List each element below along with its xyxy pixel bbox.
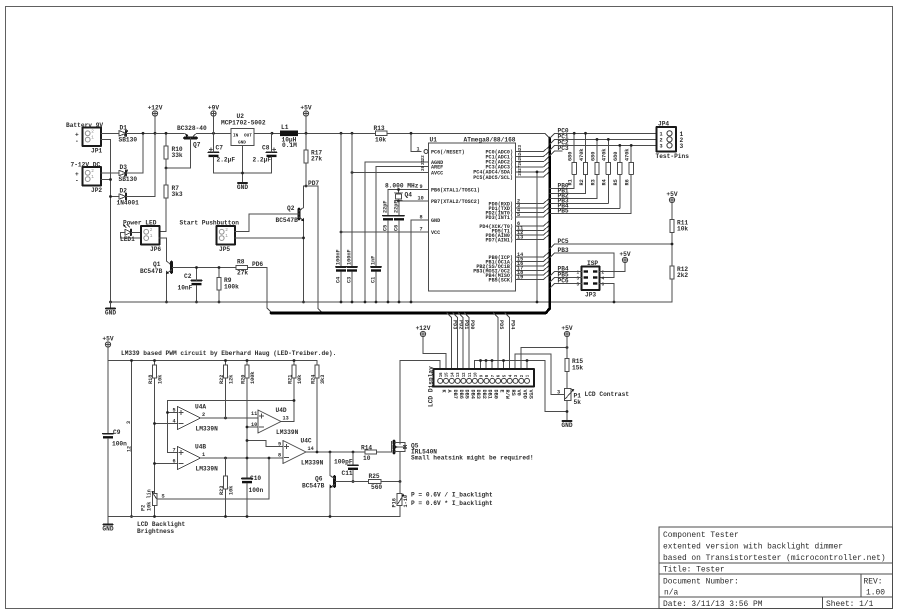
junction R5 top xyxy=(618,144,621,147)
wire ISP pin2 to +5V xyxy=(600,263,626,272)
op-amp U4B xyxy=(178,444,219,473)
wire PD7 to bus xyxy=(306,186,323,313)
svg-text:PD1: PD1 xyxy=(463,320,469,329)
pin numbers U4C xyxy=(278,442,314,459)
junction Q7 base / R7 xyxy=(165,167,168,170)
svg-text:JP4: JP4 xyxy=(658,121,669,128)
capacitor C6 22pF xyxy=(394,201,405,302)
inductor L1 xyxy=(280,124,298,149)
svg-text:5k: 5k xyxy=(574,399,582,406)
svg-text:100pF: 100pF xyxy=(334,459,353,466)
connector JP2 7-12V DC xyxy=(71,162,103,195)
svg-text:+5V: +5V xyxy=(619,251,630,258)
label heatsink note xyxy=(411,455,534,462)
label Power LED xyxy=(123,220,157,227)
junction U2 out / C8 xyxy=(271,132,274,135)
svg-text:LM339N: LM339N xyxy=(301,460,324,467)
svg-text:2: 2 xyxy=(91,129,94,134)
wire MCU pin 11 (PD5(T1)) to bus xyxy=(516,225,549,231)
svg-text:680: 680 xyxy=(613,152,619,161)
svg-text:13: 13 xyxy=(283,416,289,422)
junction D1/D3 xyxy=(142,132,145,135)
wire feedback top xyxy=(168,401,295,413)
wire D3 up to +12V node xyxy=(126,133,143,173)
wire LED1 loop to JP6 pin1 xyxy=(121,232,142,238)
svg-text:C2: C2 xyxy=(184,273,192,280)
junction U4A minus xyxy=(153,422,156,425)
svg-text:VDD: VDD xyxy=(521,390,527,399)
svg-text:DB7: DB7 xyxy=(452,390,458,399)
junction rail C4 xyxy=(340,132,343,135)
junction AGND gnd xyxy=(364,301,367,304)
pin numbers U4B xyxy=(173,448,206,465)
wire U4A minus input xyxy=(155,423,178,425)
wire PWM top rail xyxy=(108,360,317,362)
wire MCU pin 3 (PD1(TXD)) to bus xyxy=(516,203,549,209)
svg-text:PB5: PB5 xyxy=(558,207,569,214)
svg-text:R8: R8 xyxy=(237,259,245,266)
svg-text:16: 16 xyxy=(440,372,444,377)
svg-text:1: 1 xyxy=(417,147,420,153)
svg-text:LM339N: LM339N xyxy=(196,426,219,433)
svg-text:PD7(AIN1): PD7(AIN1) xyxy=(485,237,513,243)
svg-text:20: 20 xyxy=(421,165,426,171)
junction VDD tap xyxy=(566,346,569,349)
wire LED1 to JP6 xyxy=(131,231,141,233)
wire U4D minus / integrator xyxy=(247,378,258,478)
power +5V (contrast) xyxy=(561,325,572,359)
svg-text:C4: C4 xyxy=(336,277,342,283)
wire JP2 pin1 tap xyxy=(101,179,111,181)
svg-text:GND: GND xyxy=(237,184,248,191)
svg-text:2: 2 xyxy=(225,228,228,233)
junction rail C10 xyxy=(246,515,249,518)
junction LM339 gnd xyxy=(130,515,133,518)
op-amp U4D xyxy=(258,407,299,436)
svg-text:C3: C3 xyxy=(347,277,353,283)
wire net PD2 to LCD xyxy=(453,313,463,369)
svg-text:SB130: SB130 xyxy=(119,176,138,183)
svg-text:27k: 27k xyxy=(237,270,248,277)
svg-text:IN: IN xyxy=(233,134,239,139)
svg-text:GND: GND xyxy=(102,526,113,533)
resistor R24 xyxy=(310,361,326,385)
junction rail R23 xyxy=(224,515,227,518)
junction R21 / feedback xyxy=(293,399,296,402)
junction rail C3 xyxy=(351,132,354,135)
svg-text:12k: 12k xyxy=(228,375,234,384)
svg-text:2: 2 xyxy=(91,169,94,174)
svg-text:28: 28 xyxy=(518,170,523,176)
svg-text:1nF: 1nF xyxy=(371,256,377,265)
wire MCU pin 23 (PC0(ADC0)) to bus xyxy=(516,145,549,152)
svg-text:R25: R25 xyxy=(369,473,380,480)
junction crystal top xyxy=(397,188,400,191)
resistor R3 xyxy=(550,139,599,198)
svg-text:10: 10 xyxy=(363,455,371,462)
svg-text:JP6: JP6 xyxy=(150,246,161,253)
resistor R11 xyxy=(670,220,689,267)
junction VCC / C4 xyxy=(340,231,343,234)
svg-text:22pF: 22pF xyxy=(383,201,389,213)
wire MCU pin 18 (PB4(MISO)) to bus xyxy=(516,270,549,276)
svg-text:1: 1 xyxy=(202,452,205,458)
wire AREF xyxy=(376,167,429,267)
wire R21 bottom xyxy=(293,378,295,422)
wire MCU pin 2 (PD0(RXD)) to bus xyxy=(516,198,549,204)
junction wiper column xyxy=(268,457,271,460)
junction GND rail left xyxy=(109,301,112,304)
power +12V (LCD) xyxy=(416,325,431,337)
connector JP5 Start Pushbutton xyxy=(180,220,240,253)
svg-text:Component Tester: Component Tester xyxy=(663,531,739,540)
svg-text:100nF: 100nF xyxy=(336,249,342,265)
svg-text:100k: 100k xyxy=(250,372,256,384)
svg-text:LCD Contrast: LCD Contrast xyxy=(585,391,630,398)
junction U2 gnd xyxy=(241,172,244,175)
svg-text:33k: 33k xyxy=(172,152,183,159)
connector JP4 Test-Pins xyxy=(656,121,690,161)
junction R9 top xyxy=(218,266,221,269)
svg-text:GND: GND xyxy=(105,310,116,317)
wire MCU pin 16 (PB2(SS/OC1B)) to bus xyxy=(516,261,549,267)
junction C10 column xyxy=(246,457,249,460)
svg-text:R4: R4 xyxy=(602,179,608,185)
svg-text:R14: R14 xyxy=(361,445,372,452)
svg-text:7-12V DC: 7-12V DC xyxy=(71,162,101,169)
pin numbers U4A xyxy=(173,408,206,425)
svg-text:14: 14 xyxy=(308,446,314,452)
wire R14 to Q5 gate xyxy=(377,451,392,453)
resistor R9 xyxy=(217,268,239,303)
label LCD Backlight Brightness xyxy=(137,521,186,535)
bus main xyxy=(271,138,550,313)
svg-text:U4C: U4C xyxy=(301,438,312,445)
junction P1 gnd xyxy=(566,410,569,413)
wire reset drop xyxy=(411,133,421,151)
wire net PC2 xyxy=(550,145,657,150)
junction +12V node xyxy=(154,132,157,135)
svg-text:VSS: VSS xyxy=(527,390,533,399)
svg-text:LED1: LED1 xyxy=(120,236,135,243)
wire MCU pin 28 (PC5(ADC5/SCL)) to bus xyxy=(516,170,549,177)
power +5V (PWM) xyxy=(102,335,113,360)
svg-text:25: 25 xyxy=(518,155,523,161)
wire MCU pin 15 (PB1(OC1A)) to bus xyxy=(516,256,549,262)
wire MCU pin 19 (PB5(SCK)) to bus xyxy=(516,274,549,280)
wire U2 ground link xyxy=(214,146,272,183)
junction AVCC xyxy=(351,171,354,174)
svg-text:1: 1 xyxy=(150,234,153,239)
wire MCU pin 24 (PC1(ADC1)) to bus xyxy=(516,150,549,157)
svg-text:R22: R22 xyxy=(219,375,225,384)
net label PC6 xyxy=(558,278,569,285)
wire MCU GND pin xyxy=(411,215,429,303)
junction Q2 emitter gnd xyxy=(302,301,305,304)
svg-text:7: 7 xyxy=(420,227,423,233)
svg-text:12: 12 xyxy=(127,446,133,452)
svg-text:L1: L1 xyxy=(281,124,289,131)
junction R10 top xyxy=(165,132,168,135)
svg-text:C6: C6 xyxy=(394,225,400,231)
svg-text:470k: 470k xyxy=(579,149,585,161)
svg-text:10: 10 xyxy=(418,196,424,202)
crystal Q4 8.000 MHz xyxy=(385,183,419,202)
wire U4B minus input xyxy=(155,463,178,465)
wire U4A plus to U4B plus xyxy=(168,413,178,453)
wire net PD0 to LCD xyxy=(465,313,475,369)
svg-text:PD3(INT1): PD3(INT1) xyxy=(485,215,513,221)
junction PC5 column gnd xyxy=(536,301,539,304)
wire PWM bottom rail xyxy=(108,516,400,518)
svg-text:BC547B: BC547B xyxy=(302,483,325,490)
svg-text:R6: R6 xyxy=(625,179,631,185)
svg-text:+5V: +5V xyxy=(666,191,677,198)
svg-text:10k: 10k xyxy=(228,486,234,495)
wire U4A out to U4D plus xyxy=(201,417,259,419)
svg-text:BC547B: BC547B xyxy=(140,268,163,275)
svg-text:560: 560 xyxy=(371,484,382,491)
svg-text:Title: Tester: Title: Tester xyxy=(663,566,725,575)
capacitor C7 xyxy=(209,133,236,173)
svg-text:RS: RS xyxy=(510,390,516,396)
junction +5V node xyxy=(305,132,308,135)
svg-text:Test-Pins: Test-Pins xyxy=(656,153,690,160)
svg-text:10k: 10k xyxy=(157,375,163,384)
svg-text:2: 2 xyxy=(150,228,153,233)
potentiometer P2 10k lin xyxy=(141,489,270,516)
wire PB7 xyxy=(399,196,429,202)
svg-text:2: 2 xyxy=(202,412,205,418)
pin numbers AGND/AREF/AVCC xyxy=(421,155,426,171)
wire AGND xyxy=(365,162,429,302)
wire net PC5 xyxy=(550,244,672,249)
junction PC5 divider xyxy=(671,243,674,246)
ground U2 xyxy=(237,183,248,191)
wire net PB5 to ISP pin3 xyxy=(550,278,582,283)
svg-text:1: 1 xyxy=(660,132,663,138)
capacitor C10 100n xyxy=(242,475,264,517)
svg-text:15: 15 xyxy=(446,372,450,377)
svg-text:15k: 15k xyxy=(572,365,583,372)
power +5V (main) xyxy=(300,104,311,133)
junction MCU gnd xyxy=(410,301,413,304)
svg-text:23: 23 xyxy=(518,145,523,151)
svg-text:R13: R13 xyxy=(374,125,385,132)
wire net PD1 to LCD xyxy=(459,313,469,369)
svg-text:680: 680 xyxy=(590,152,596,161)
junction PC5 column top xyxy=(536,171,539,174)
wire JP1 pin2 to D1 xyxy=(101,132,119,134)
junction ISP gnd xyxy=(613,301,616,304)
wire L1 to +5V rail xyxy=(298,132,376,134)
wire U4D out to R21 xyxy=(281,421,294,423)
junction Q2 emitter wire xyxy=(302,237,305,240)
svg-text:Sheet: 1/1: Sheet: 1/1 xyxy=(826,600,874,609)
power +9V xyxy=(208,104,219,133)
svg-text:3: 3 xyxy=(126,421,132,424)
wire net PD5 to LCD xyxy=(494,313,504,369)
svg-text:AVCC: AVCC xyxy=(431,170,443,176)
svg-text:1: 1 xyxy=(91,175,94,180)
svg-text:ISP: ISP xyxy=(587,260,598,267)
junction R22 top xyxy=(224,359,227,362)
capacitor C11 100pF xyxy=(334,452,358,482)
junction C2 top xyxy=(195,266,198,269)
svg-text:P = 0.6V / I_backlight: P = 0.6V / I_backlight xyxy=(411,492,493,499)
svg-text:PC6(/RESET): PC6(/RESET) xyxy=(431,149,465,155)
transistor Q1 BC547B xyxy=(140,261,172,302)
svg-text:+5V: +5V xyxy=(102,335,113,342)
junction R6 top xyxy=(630,144,633,147)
resistor R18 column xyxy=(154,378,156,493)
wire MCU pin 17 (PB3(MOSI/OC2)) to bus xyxy=(516,265,549,271)
svg-text:0.1M: 0.1M xyxy=(282,142,297,149)
svg-text:Date: 3/11/13 3:56 PM: Date: 3/11/13 3:56 PM xyxy=(663,600,763,609)
svg-text:22: 22 xyxy=(421,155,426,161)
diode D3 xyxy=(119,164,138,183)
wire net PB4 to ISP pin1 xyxy=(550,272,582,277)
resistor R20 xyxy=(240,361,256,385)
junction R23 top xyxy=(224,457,227,460)
net label PC5 xyxy=(558,238,569,245)
junction R24 out xyxy=(316,451,319,454)
svg-text:PB6(XTAL1/TOSC1): PB6(XTAL1/TOSC1) xyxy=(431,187,480,193)
svg-text:REV:: REV: xyxy=(864,578,883,587)
svg-text:21: 21 xyxy=(421,159,426,165)
junction source node xyxy=(399,480,402,483)
svg-text:19: 19 xyxy=(517,274,523,280)
svg-text:9: 9 xyxy=(420,184,423,190)
svg-text:Q2: Q2 xyxy=(287,205,295,212)
ground P1 xyxy=(561,421,572,429)
wire +12V node to R10/Q7 xyxy=(155,132,185,134)
svg-text:27: 27 xyxy=(518,165,523,171)
svg-text:LM339N: LM339N xyxy=(196,466,219,473)
label LCD Contrast xyxy=(585,391,630,398)
net label PD6 xyxy=(252,261,263,268)
svg-text:Battery 9V: Battery 9V xyxy=(66,122,103,129)
svg-text:R5: R5 xyxy=(613,179,619,185)
connector JP3 ISP xyxy=(577,260,605,299)
wire ISP pin6 to gnd xyxy=(600,284,615,303)
junction C3 gnd xyxy=(351,301,354,304)
svg-text:2k2: 2k2 xyxy=(677,272,688,279)
wire battery minus rail xyxy=(101,140,111,303)
label PWM title xyxy=(121,350,336,357)
svg-text:+12V: +12V xyxy=(148,104,163,111)
wire LCD ground group xyxy=(475,359,568,411)
wire net PD4 to LCD xyxy=(505,313,515,369)
junction R2 top xyxy=(584,132,587,135)
wire net PC1 xyxy=(550,139,657,144)
svg-text:PD6: PD6 xyxy=(252,261,263,268)
svg-text:10nF: 10nF xyxy=(178,285,193,292)
wire net PC3 stub xyxy=(550,151,562,156)
wire MCU VCC pin xyxy=(341,227,429,233)
power +12V xyxy=(148,104,163,116)
wire P1 to gnd xyxy=(566,401,568,421)
wire U4C plus input xyxy=(247,441,283,447)
wire +12V to LCD anode xyxy=(423,337,446,369)
wire Q7 base xyxy=(166,138,191,168)
wire LCD K to Q5 drain xyxy=(400,361,440,445)
svg-text:PB7(XTAL2/TOSC2): PB7(XTAL2/TOSC2) xyxy=(431,199,480,205)
wire LCD V0 to P1 wiper xyxy=(515,354,559,395)
wire net PB3 to ISP pin4 xyxy=(550,253,614,278)
svg-text:R24: R24 xyxy=(310,375,316,384)
wire MCU pin 12 (PD6(AIN0)) to bus xyxy=(516,230,549,236)
wire net PC0 xyxy=(550,133,657,138)
svg-text:12: 12 xyxy=(463,372,467,377)
wire Q7 collector to U2 xyxy=(197,132,232,134)
svg-text:PC5(ADC5/SCL): PC5(ADC5/SCL) xyxy=(473,175,513,181)
svg-text:3: 3 xyxy=(557,389,560,395)
transistor Q2 BC547B xyxy=(276,186,307,302)
resistor R13 xyxy=(374,125,388,144)
svg-text:1-10: 1-10 xyxy=(403,495,409,507)
wire U4C out xyxy=(306,451,365,453)
resistor R10 xyxy=(164,133,183,168)
wire PB6 xyxy=(388,184,429,190)
svg-text:22pF: 22pF xyxy=(394,201,400,213)
svg-text:C7: C7 xyxy=(216,145,224,152)
junction R21 top xyxy=(293,359,296,362)
svg-text:GND: GND xyxy=(561,422,572,429)
svg-text:DB0: DB0 xyxy=(493,390,499,399)
diode D2 xyxy=(117,188,140,207)
resistor R23 xyxy=(219,458,235,517)
svg-text:D1: D1 xyxy=(120,125,128,132)
capacitor C2 xyxy=(178,268,202,303)
wire MCU pin 6 (PD4(XCK/T0)) to bus xyxy=(516,221,549,227)
svg-text:680: 680 xyxy=(568,152,574,161)
svg-text:U4D: U4D xyxy=(276,407,287,414)
wire PD6 to bus xyxy=(248,268,272,313)
transistor Q5 IRL540N xyxy=(392,441,438,456)
svg-text:-: - xyxy=(75,177,79,184)
svg-text:10: 10 xyxy=(475,372,479,377)
pin numbers U4D xyxy=(251,411,289,428)
svg-text:PD3: PD3 xyxy=(452,320,458,329)
junction crystal bottom xyxy=(397,200,400,203)
power +5V (ISP) xyxy=(619,251,630,263)
resistor R18 xyxy=(148,361,164,385)
wire R13 to bus top xyxy=(387,133,550,138)
junction +9V node xyxy=(212,132,215,135)
svg-text:DB1: DB1 xyxy=(487,390,493,399)
junction C5 gnd xyxy=(387,301,390,304)
svg-text:Brightness: Brightness xyxy=(137,528,174,535)
svg-text:8.000 MHz: 8.000 MHz xyxy=(385,183,419,190)
resistor R14 xyxy=(361,445,377,463)
svg-text:11: 11 xyxy=(251,411,257,417)
junction rail P2 xyxy=(153,515,156,518)
svg-text:Start Pushbutton: Start Pushbutton xyxy=(180,220,240,227)
net label PD7 xyxy=(308,180,319,187)
resistor R22 xyxy=(219,361,235,385)
junction R1 top xyxy=(573,132,576,135)
wire LM339 power pins xyxy=(126,361,133,517)
wire Q6 base to R25 xyxy=(336,481,369,483)
svg-text:14: 14 xyxy=(451,372,455,377)
junction C2 gnd xyxy=(195,301,198,304)
svg-text:LM339 based PWM circuit by Ebe: LM339 based PWM circuit by Eberhard Haug… xyxy=(121,350,336,357)
svg-text:U4B: U4B xyxy=(195,444,206,451)
wire MCU pin 25 (PC2(ADC2)) to bus xyxy=(516,155,549,162)
junction R3 top xyxy=(596,138,599,141)
resistor R6 xyxy=(550,145,633,213)
